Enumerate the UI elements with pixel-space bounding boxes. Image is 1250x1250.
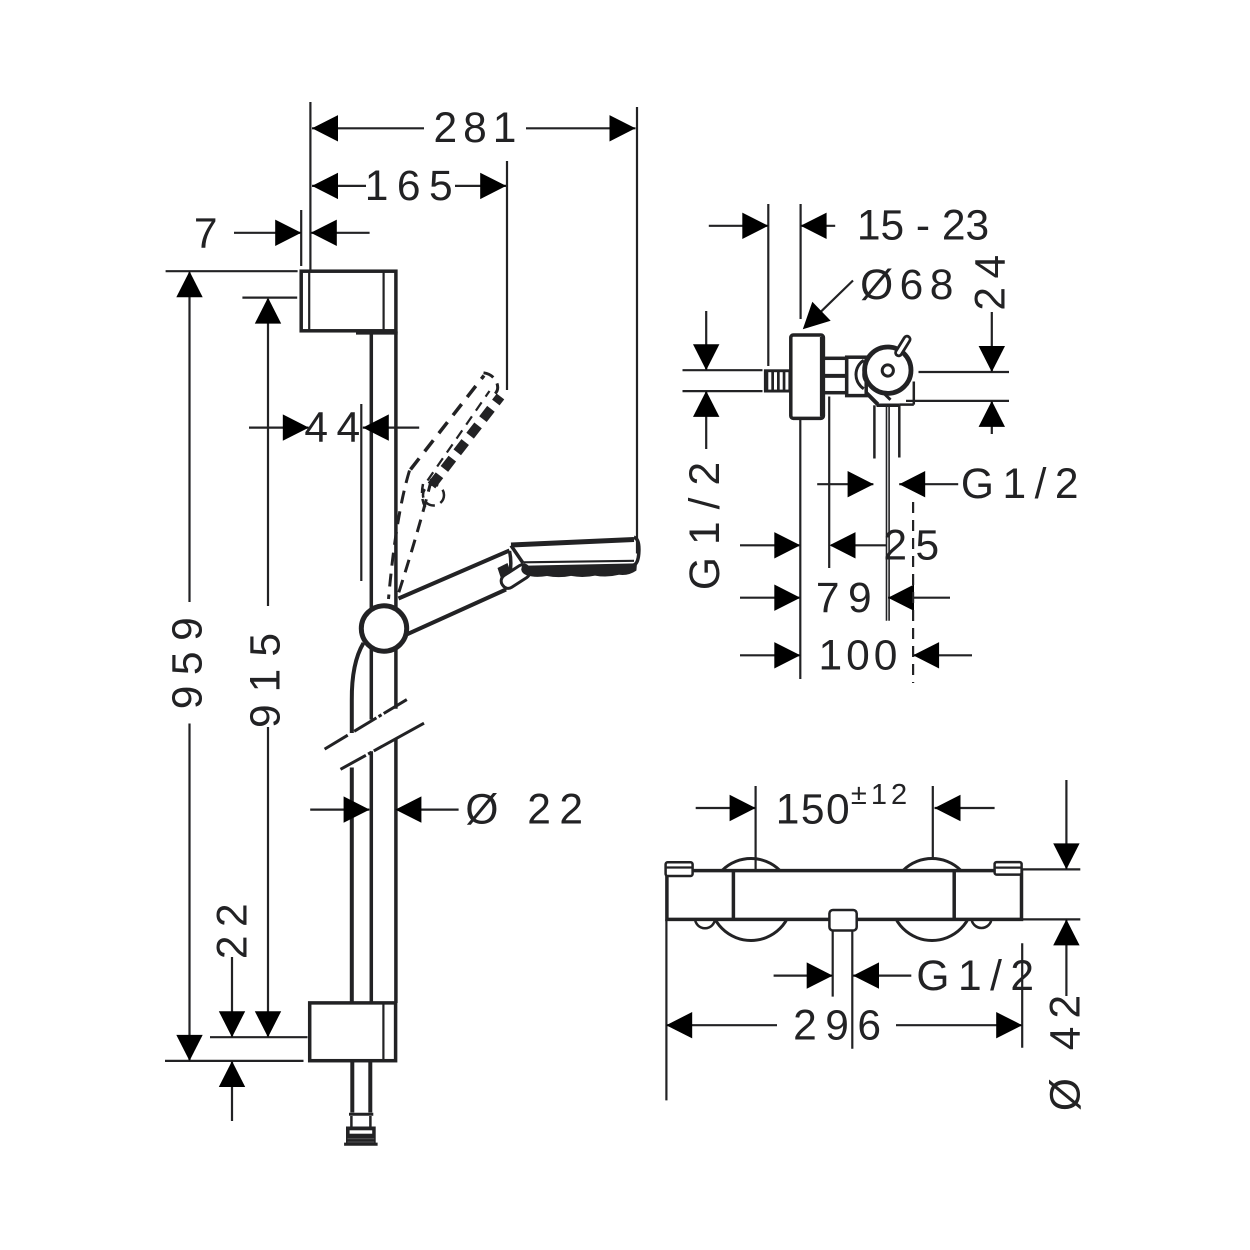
dim G1/2 outlet [817,461,1087,508]
dim 100 [740,418,972,683]
escutcheon disc [791,335,824,418]
mixer body [667,871,1022,920]
svg-text:25: 25 [883,522,947,569]
outlet shoulder and pipe [874,382,913,621]
dim 915 [210,298,308,1038]
svg-text:G1/2: G1/2 [916,953,1042,1000]
wall bracket (top) [301,271,397,333]
shower hose [352,643,371,1113]
svg-text:165: 165 [365,163,461,210]
outlet stub [866,391,891,405]
dim 44 [249,404,419,581]
dim 24 [906,246,1015,434]
hand shower (dashed, raised position) [389,373,501,600]
svg-text:G1/2: G1/2 [961,461,1087,508]
outlet connection [829,910,856,931]
dim G1/2 supply (rotated) [682,311,729,590]
wall escutcheon left [710,859,792,941]
svg-text:Ø 22: Ø 22 [465,787,591,834]
union nut [823,358,846,392]
slide bar left edge [370,332,374,1003]
dim 165 [312,161,507,390]
svg-text:959: 959 [165,607,212,709]
svg-text:915: 915 [243,621,290,728]
dim 296 [666,919,1022,1100]
label diameter 68 with leader [794,262,960,339]
escutcheon ear left [695,908,715,928]
svg-text:±12: ±12 [851,779,911,811]
hose end fitting with nut [344,1114,378,1146]
dim 79 [740,575,950,622]
valve body [847,357,867,395]
dim 281 [310,102,637,554]
slider holder knob [361,606,406,651]
escutcheon ear right [972,908,992,928]
dim diameter 42 [1022,780,1090,1111]
dim diameter 22 (bar) [310,787,591,834]
slide bar right edge [394,332,398,1003]
svg-text:79: 79 [816,575,880,622]
dim 150 +-12 [696,779,995,869]
svg-text:G1/2: G1/2 [682,450,729,590]
threaded pipe end [764,369,791,392]
svg-text:296: 296 [793,1003,889,1050]
hand shower (solid, lower position) [398,537,639,635]
dim 15 - 23 [709,202,989,366]
flow knob ring right [995,862,1022,875]
dim G1/2 outlet bottom [774,931,1043,1049]
knob divider left [732,871,736,920]
knob divider right [952,871,956,920]
dim 959 [165,271,304,1061]
svg-text:7: 7 [194,211,226,258]
wall bracket (bottom) [310,1003,396,1061]
pipe break symbol [325,699,424,770]
handle knob [865,339,911,393]
svg-text:22: 22 [210,895,257,959]
dim 22 (bar end offset) [210,895,257,1121]
svg-text:Ø68: Ø68 [860,262,960,309]
dim 7 [194,210,370,266]
svg-text:150: 150 [776,787,851,834]
svg-text:281: 281 [434,105,523,152]
svg-text:24: 24 [968,246,1015,310]
svg-text:15 - 23: 15 - 23 [857,202,989,249]
svg-text:100: 100 [819,632,902,679]
temperature knob ring left [666,862,693,876]
wall escutcheon right [891,859,973,941]
svg-text:44: 44 [304,405,368,452]
supply pipe [683,370,763,391]
svg-text:Ø 42: Ø 42 [1043,987,1090,1111]
dim 25 [740,397,948,570]
valve flange [856,360,868,389]
